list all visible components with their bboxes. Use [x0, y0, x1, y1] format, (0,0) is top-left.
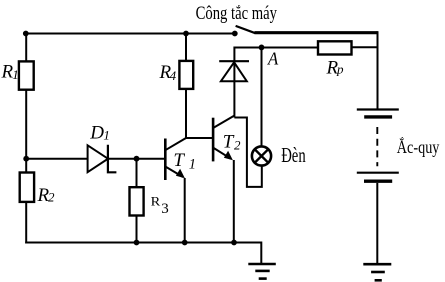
svg-text:Ắc-quy: Ắc-quy: [397, 136, 440, 157]
svg-text:Đèn: Đèn: [281, 143, 306, 167]
svg-text:3: 3: [161, 201, 169, 217]
node A dot: [259, 45, 265, 51]
battery plate long 1: [357, 108, 399, 110]
svg-text:T: T: [223, 131, 235, 152]
wire battery bottom lead: [376, 183, 378, 264]
svg-text:A: A: [267, 48, 279, 68]
wire R3 bottom lead: [136, 216, 138, 243]
wire T1 emitter down lead: [184, 178, 186, 243]
node dot R4 top: [183, 31, 189, 37]
resistor Rp: [318, 41, 352, 54]
svg-text:4: 4: [170, 68, 177, 83]
battery plate short 1: [364, 115, 392, 118]
transistor T1 base bar: [164, 139, 167, 181]
resistor R2: [20, 173, 34, 202]
diode D1 cathode bar with hook: [108, 145, 117, 173]
wire lamp top lead to node A: [261, 48, 263, 147]
lamp X diagonal 1: [255, 149, 269, 163]
wire T2 emitter down lead: [233, 160, 235, 243]
wire T1 collector node to T2 base: [186, 137, 213, 139]
wire ground stem center: [260, 243, 261, 264]
diode D1 triangle: [88, 145, 108, 172]
transistor T2 emitter diagonal: [213, 148, 231, 159]
switch arm: [236, 26, 255, 33]
lamp Đèn circle: [252, 146, 271, 165]
wire R4 bottom lead to T1 collector node: [185, 89, 187, 138]
transistor T1 emitter arrowhead: [176, 169, 185, 179]
battery plate short 2: [364, 179, 392, 182]
node dot top-left: [23, 31, 29, 37]
wire R1 bottom lead: [25, 90, 27, 159]
wire Rp right lead: [352, 46, 378, 48]
node dot left middle: [23, 156, 29, 162]
resistor R1: [19, 61, 34, 89]
transistor T2 base bar: [212, 118, 215, 162]
wire lamp loop left: [234, 118, 261, 187]
ground battery bar3: [375, 279, 382, 282]
resistor R4: [179, 61, 193, 89]
ground center bar2: [255, 270, 269, 273]
transistor T1 emitter diagonal: [165, 167, 183, 178]
battery dashed middle: [376, 127, 378, 166]
node dot T1 emitter bottom: [182, 240, 188, 246]
ground battery bar1: [363, 263, 391, 266]
wire D1 cathode to T1 base: [108, 158, 165, 160]
node dot T2 emitter bottom: [231, 240, 237, 246]
wire thick from switch to battery: [255, 31, 378, 34]
wire left branch R1 top lead: [25, 34, 27, 62]
svg-text:1: 1: [12, 67, 19, 82]
svg-text:D: D: [89, 122, 104, 143]
transistor T2 collector diagonal: [213, 116, 234, 129]
wire R4 top lead: [185, 34, 187, 61]
diode protection center lead through triangle: [233, 62, 235, 81]
node dot R3 top: [134, 156, 140, 162]
svg-text:2: 2: [48, 190, 55, 205]
ground center bar1: [248, 263, 275, 266]
svg-text:1: 1: [103, 128, 110, 143]
wire battery top lead: [377, 31, 379, 108]
node dot R3 bottom: [134, 240, 140, 246]
svg-text:Công tắc máy: Công tắc máy: [196, 3, 278, 24]
ground battery bar2: [371, 271, 385, 274]
wire diode bottom lead to T2 collector: [233, 81, 235, 117]
wire top rail: [26, 33, 235, 35]
wire diode top lead from corner: [234, 48, 318, 62]
transistor T1 collector diagonal: [165, 138, 186, 150]
lamp X diagonal 2: [255, 149, 269, 163]
resistor R3: [130, 187, 144, 215]
transistor T2 emitter arrowhead: [224, 151, 233, 161]
svg-text:2: 2: [234, 137, 241, 152]
ground center bar3: [259, 277, 267, 280]
switch Công tắc máy: contact dot: [232, 31, 238, 37]
diode protection (at node A) cathode bar: [219, 60, 249, 62]
wire R2 bottom lead: [25, 202, 27, 244]
svg-text:1: 1: [189, 156, 196, 172]
svg-text:T: T: [173, 150, 185, 171]
diode protection triangle: [221, 62, 247, 81]
wire R2 top lead: [25, 159, 27, 173]
wire R3 top lead: [136, 159, 138, 188]
wire middle rail to D1 anode: [26, 158, 87, 160]
svg-text:R: R: [151, 193, 161, 208]
wire bottom rail: [25, 242, 261, 244]
svg-text:p: p: [336, 61, 344, 76]
battery plate long 2: [357, 172, 399, 174]
